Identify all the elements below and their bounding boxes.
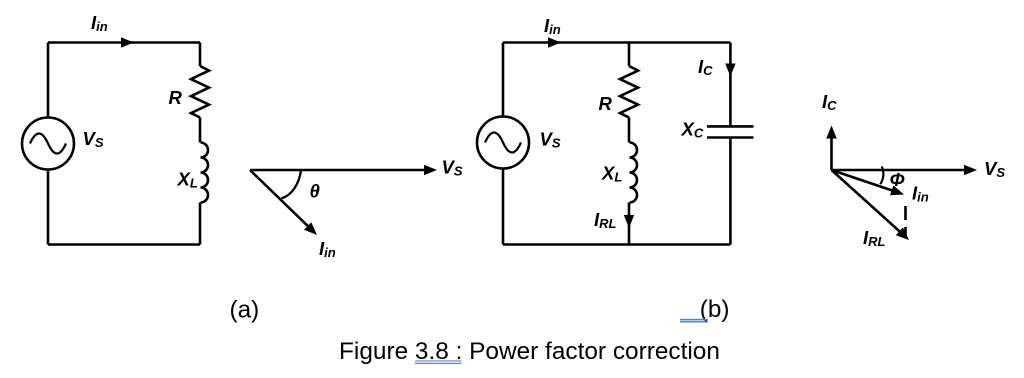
- wire: circuit (b) middle branch upper: [628, 43, 631, 67]
- wire: circuit (b) middle branch lower: [628, 203, 631, 245]
- svg-text:VS: VS: [442, 157, 463, 179]
- arrowhead: Iin vector (phasor a): [304, 222, 317, 235]
- arrowhead: VS vector (phasor b): [964, 165, 977, 175]
- svg-text:(a): (a): [230, 297, 260, 324]
- arrowhead: IC vector (phasor b): [826, 126, 837, 139]
- phasor diagram (b): [832, 137, 966, 238]
- dashed line Iin tip to IRL tip (phasor b): [904, 206, 907, 238]
- svg-text:Iin: Iin: [544, 15, 561, 37]
- wire: circuit (a) top: [48, 41, 200, 44]
- wire: circuit (b) between R and XL: [628, 118, 631, 143]
- svg-text:IRL: IRL: [863, 227, 886, 249]
- inductor XL (circuit a): [201, 143, 209, 203]
- svg-text:XL: XL: [601, 163, 622, 185]
- wire: circuit (a) between R and XL: [199, 118, 202, 143]
- vector VS (phasor b): [832, 169, 966, 172]
- svg-text:Iin: Iin: [319, 238, 336, 260]
- svg-text:VS: VS: [540, 129, 561, 151]
- wire: circuit (a) left lower: [47, 170, 50, 245]
- wire: circuit (a) left upper: [47, 43, 50, 118]
- arc phi (phasor b): [880, 167, 883, 185]
- vector Iin (phasor a): [250, 170, 308, 227]
- wire: circuit (b) right lower: [729, 139, 732, 245]
- svg-text:IRL: IRL: [594, 209, 617, 231]
- arrowhead: VS vector (phasor a): [424, 165, 437, 175]
- svg-text:IC: IC: [698, 56, 713, 78]
- svg-text:XC: XC: [681, 119, 704, 141]
- svg-text:R: R: [169, 87, 183, 108]
- arrowhead: Iin current (circuit b): [548, 37, 561, 47]
- wire: circuit (a) bottom: [48, 243, 200, 246]
- capacitor XC plate top (circuit b): [707, 125, 754, 128]
- phasor diagram (a): [250, 170, 425, 227]
- wire: circuit (b) bottom: [503, 243, 730, 246]
- resistor R (circuit a): [191, 66, 209, 118]
- wire: circuit (a) right upper: [199, 43, 202, 67]
- wire: circuit (a) right lower: [199, 203, 202, 245]
- wire: circuit (b) left lower: [502, 169, 505, 245]
- blue double underline under 3.8 :: [415, 360, 462, 362]
- wire: circuit (b) right upper: [729, 43, 732, 126]
- arrowhead: Iin vector (phasor b): [890, 185, 904, 195]
- wire: circuit (b) left upper: [502, 43, 505, 117]
- inductor XL (circuit b): [630, 143, 638, 203]
- vector IC (phasor b): [830, 137, 833, 170]
- vector VS (phasor a): [250, 169, 425, 172]
- svg-text:VS: VS: [83, 128, 104, 150]
- svg-text:IC: IC: [822, 91, 837, 113]
- svg-text:VS: VS: [984, 158, 1005, 180]
- wire: circuit (b) top: [503, 41, 730, 44]
- vector Iin (phasor b): [832, 170, 893, 191]
- arc theta (phasor a): [282, 170, 302, 198]
- svg-text:Figure 3.8 : Power factor corr: Figure 3.8 : Power factor correction: [339, 338, 720, 365]
- svg-text:Iin: Iin: [912, 183, 929, 205]
- arrowhead: Iin current (circuit a): [121, 37, 134, 47]
- arrowhead: IC current (circuit b): [725, 64, 735, 77]
- AC source VS (circuit b): [477, 117, 529, 169]
- arrowhead: IRL vector (phasor b): [896, 227, 909, 240]
- blue double underline mark before (b): [680, 319, 708, 321]
- capacitor XC plate bottom (circuit b): [707, 136, 754, 139]
- svg-text:Φ: Φ: [890, 169, 905, 190]
- vector IRL (phasor b): [832, 170, 901, 232]
- arrowhead: IRL current (circuit b): [624, 215, 634, 228]
- svg-text:θ: θ: [310, 180, 320, 201]
- resistor R (circuit b): [620, 66, 638, 118]
- circuit (b): [477, 43, 754, 245]
- svg-text:XL: XL: [177, 169, 198, 191]
- AC source VS (circuit a): [22, 118, 74, 170]
- svg-text:Iin: Iin: [91, 12, 108, 34]
- svg-text:R: R: [599, 93, 613, 114]
